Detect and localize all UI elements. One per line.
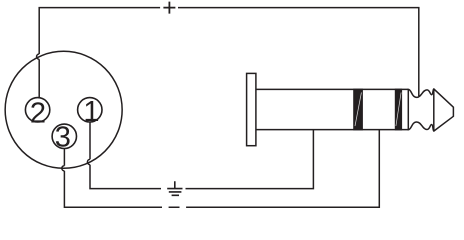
svg-text:1: 1 xyxy=(83,96,99,128)
wire bottom to ring xyxy=(186,130,379,208)
TRS plug sleeve body xyxy=(256,89,408,129)
svg-text:2: 2 xyxy=(30,97,46,129)
insulator band 1 xyxy=(353,89,363,131)
pin 3 xyxy=(52,124,76,148)
pin 1 xyxy=(78,98,102,122)
svg-text:3: 3 xyxy=(55,122,71,154)
wire pin3 bottom run xyxy=(62,149,180,208)
tip cone base line xyxy=(433,89,435,131)
polarity label + xyxy=(163,2,175,14)
XLR female connector shell xyxy=(5,51,122,168)
TRS plug flange xyxy=(247,73,256,145)
pin 2 xyxy=(25,98,49,122)
wire pin1 to ground run xyxy=(87,122,161,189)
ground xyxy=(167,181,182,195)
tip knob and cone outline xyxy=(408,89,453,131)
wire pin2 to shell hop xyxy=(37,54,40,98)
insulator band 2 xyxy=(395,89,402,131)
wire ground to sleeve xyxy=(186,130,314,189)
wire hot top run xyxy=(39,8,419,97)
